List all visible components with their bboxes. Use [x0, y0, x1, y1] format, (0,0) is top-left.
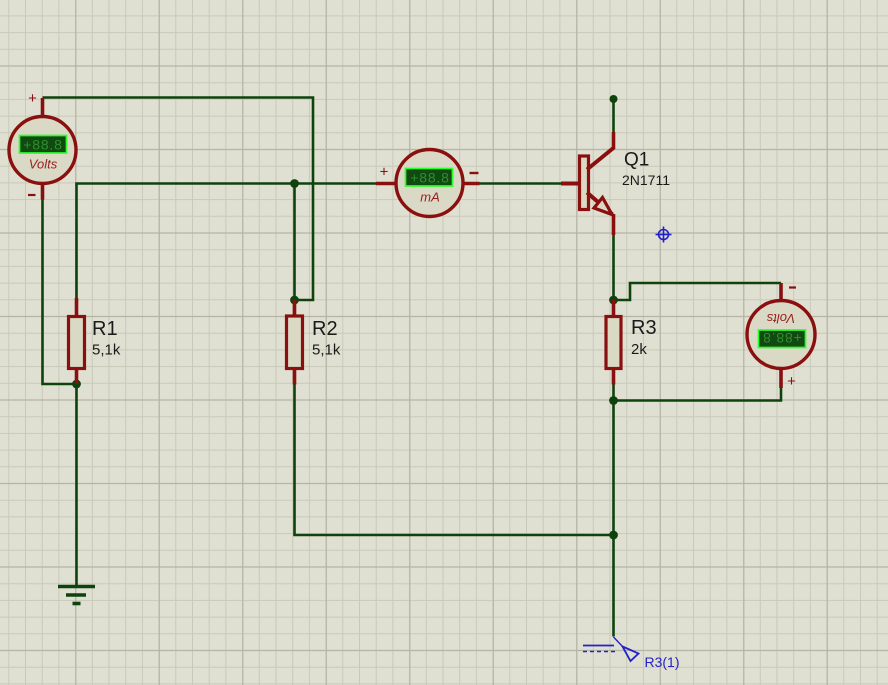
R2 reference label — [312, 318, 338, 340]
AM1 minus pin label — [470, 172, 479, 174]
terminal dot collector supply — [610, 95, 618, 103]
ground — [58, 587, 95, 604]
probe net label R3(1) — [645, 654, 680, 670]
wire emitter down from Q1 — [612, 235, 615, 301]
svg-text:+: + — [787, 373, 796, 390]
svg-text:Volts: Volts — [766, 311, 795, 326]
junction node at base rail and R2 branch — [290, 179, 299, 188]
VM2 plus pin label — [787, 373, 796, 390]
Q1 reference label — [624, 150, 649, 171]
R3 value label 2k — [631, 341, 647, 358]
R3 reference label — [631, 317, 657, 339]
svg-text:R2: R2 — [312, 318, 338, 340]
ammeter AM1 — [376, 150, 480, 217]
svg-text:R3: R3 — [631, 317, 657, 339]
VM2 minus pin label — [789, 286, 796, 288]
svg-text:R1: R1 — [92, 318, 118, 340]
wire R3 bottom down to probe end — [612, 384, 615, 637]
wire R1 bottom to ground — [75, 384, 78, 586]
svg-text:+: + — [380, 164, 389, 181]
wire R2 bottom to bottom node — [295, 384, 614, 535]
wire base rail from R1 top corner to ammeter — [77, 184, 377, 299]
junction node R2 top — [290, 296, 299, 305]
svg-text:2N1711: 2N1711 — [622, 172, 670, 188]
wire ammeter to Q1 base — [479, 182, 562, 185]
R1 value label 5,1k — [92, 342, 121, 359]
Q1 value label 2N1711 — [622, 172, 670, 188]
junction node bottom rail — [609, 531, 618, 540]
svg-text:+88.8: +88.8 — [410, 170, 449, 186]
origin marker — [656, 227, 672, 243]
wire voltmeter minus down to R1 bottom node — [43, 199, 77, 384]
transistor Q1 — [561, 132, 614, 235]
svg-text:+: + — [28, 90, 37, 107]
svg-text:Volts: Volts — [29, 157, 58, 172]
voltmeter VM1 — [9, 98, 76, 200]
R2 value label 5,1k — [312, 342, 341, 359]
svg-text:Q1: Q1 — [624, 150, 649, 171]
AM1 plus pin label — [380, 164, 389, 181]
junction node R1 bottom — [72, 380, 81, 389]
resistor R3 — [606, 300, 621, 385]
svg-text:+88.8: +88.8 — [23, 137, 62, 153]
svg-text:5,1k: 5,1k — [312, 342, 341, 359]
wire right voltmeter plus to R3 bottom node — [614, 388, 782, 401]
wire emitter node to right voltmeter minus — [614, 283, 782, 300]
junction node emitter / R3 top — [609, 296, 618, 305]
wire collector up to supply dot — [612, 99, 615, 132]
svg-text:2k: 2k — [631, 341, 647, 358]
VM1 plus pin label — [28, 90, 37, 107]
resistor R2 — [287, 300, 303, 385]
resistor R1 — [69, 298, 85, 384]
voltmeter VM2 (rotated 180) — [747, 283, 815, 388]
svg-text:5,1k: 5,1k — [92, 342, 121, 359]
probe marker R3(1) — [583, 637, 639, 661]
wire net VCC top from voltmeter plus to corner — [43, 98, 314, 301]
R1 reference label — [92, 318, 118, 340]
svg-text:R3(1): R3(1) — [645, 654, 680, 670]
svg-text:+88.8: +88.8 — [762, 330, 801, 346]
svg-text:mA: mA — [420, 190, 440, 205]
junction node R3 bottom / voltmeter plus — [609, 396, 618, 405]
wire node B vertical to R2 top — [293, 184, 296, 301]
VM1 minus pin label — [28, 194, 36, 196]
